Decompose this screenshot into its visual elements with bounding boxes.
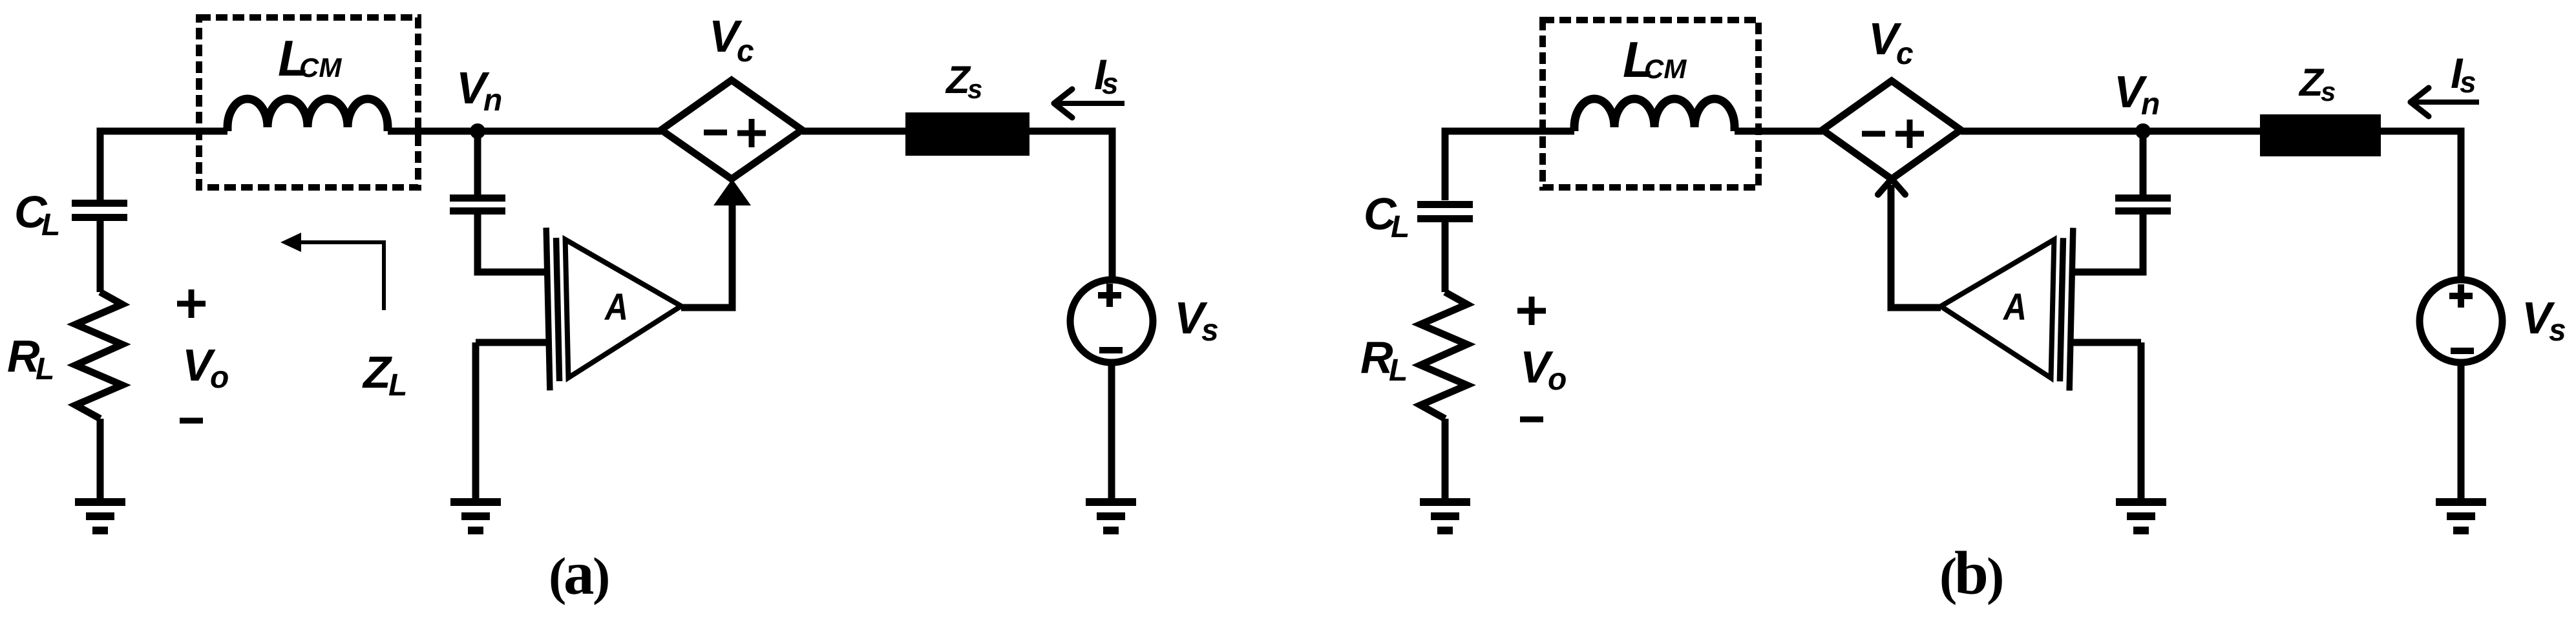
label Vs (a)	[1174, 293, 1219, 348]
minus inside Vs (a)	[1099, 347, 1123, 353]
label A (a)	[604, 286, 628, 328]
label plus of Vo (b)	[1517, 297, 1546, 325]
capacitor CL (b)	[1417, 205, 1473, 219]
capacitor C2 below Vn (b)	[2140, 131, 2147, 194]
capacitor CL (a)	[72, 204, 127, 218]
label CL (b)	[1364, 189, 1409, 244]
wire: (b) CL to RL	[1442, 222, 1449, 292]
wire: (a) RL to ground	[97, 419, 104, 499]
svg-text:b: b	[1954, 539, 1989, 607]
svg-text:s: s	[1201, 313, 1219, 348]
ground (b) under RL	[1420, 502, 1470, 530]
svg-text:n: n	[483, 83, 502, 118]
wire: (a) coil to diamond	[388, 128, 661, 135]
label plus of Vo (a)	[177, 289, 206, 318]
svg-text:a: a	[564, 539, 595, 607]
label Vc (a)	[709, 11, 754, 68]
svg-text:s: s	[2460, 65, 2476, 99]
label RL (a)	[7, 331, 54, 386]
wire: (a) capacitor to op-amp + input	[478, 215, 547, 272]
svg-text:A: A	[2002, 286, 2027, 328]
wire: (b) diamond to Zs	[1961, 128, 2260, 135]
open arrowhead into diamond (b)	[1878, 179, 1905, 194]
arrowhead into diamond (a)	[713, 179, 751, 205]
wire: (a) top-left corner down to CL	[100, 131, 227, 200]
label Vn (a)	[456, 63, 502, 118]
label Vo (a)	[182, 340, 229, 395]
label Vo (b)	[1520, 342, 1567, 397]
svg-text:L: L	[1389, 353, 1408, 388]
svg-text:s: s	[2321, 76, 2336, 107]
plus inside diamond (a)	[737, 119, 766, 147]
controlled source Vc diamond (a)	[661, 80, 802, 179]
source Vs (a)	[1070, 280, 1153, 362]
resistor RL (b)	[1420, 292, 1467, 419]
svg-text:CM: CM	[1644, 54, 1687, 84]
wire: (b) coil to diamond	[1735, 128, 1822, 135]
label L_CM (a)	[278, 30, 342, 87]
label RL (b)	[1360, 332, 1408, 388]
op-amp U1 A (a)	[546, 225, 683, 391]
ground (a) under RL	[75, 502, 125, 530]
source Vs (b)	[2420, 280, 2502, 362]
controlled source Vc diamond (b)	[1822, 81, 1961, 179]
inductor L_CM (b) coil	[1574, 99, 1735, 131]
svg-text:o: o	[210, 361, 229, 395]
current arrow Is (a)	[1056, 101, 1124, 106]
wire: (b) top-left corner down to CL	[1445, 131, 1574, 200]
wire: (a) CL to RL	[97, 221, 104, 292]
node Vn (b) junction dot	[2135, 123, 2151, 139]
wire: (b) op-amp - input to ground	[2073, 339, 2141, 346]
current arrow Is (b)	[2412, 100, 2479, 105]
label Zs (a)	[945, 58, 982, 104]
ground (b) under op-amp	[2116, 502, 2166, 530]
label minus of Vo (b)	[1520, 417, 1543, 423]
minus inside Vs (b)	[2451, 348, 2474, 354]
label CL (a)	[14, 187, 60, 242]
svg-text:s: s	[2549, 313, 2566, 348]
svg-text:): )	[593, 547, 610, 605]
svg-text:o: o	[1548, 362, 1567, 397]
label L_CM (b)	[1623, 31, 1687, 88]
capacitor C2 below Vn (a)	[474, 131, 481, 194]
impedance Zs (a)	[905, 112, 1029, 156]
plus inside Vs (a)	[1098, 284, 1121, 307]
caption (a)	[549, 539, 610, 607]
wire: (b) capacitor to op-amp + input	[2073, 215, 2143, 272]
label minus of Vo (a)	[180, 418, 203, 424]
wire: (b) RL to ground	[1442, 419, 1449, 499]
caption (b)	[1939, 539, 2004, 607]
svg-text:): )	[1987, 547, 2004, 605]
plus inside Vs (b)	[2449, 284, 2473, 308]
ground (a) under Vs	[1086, 502, 1136, 530]
label ZL (a)	[362, 347, 407, 403]
wire: (a) op-amp - input to ground	[476, 339, 547, 346]
wire: (b) op-amp output up to controlled source	[1891, 185, 1941, 308]
svg-text:L: L	[36, 352, 54, 386]
node Vn (a) junction dot	[470, 123, 485, 139]
ground (a) under op-amp	[450, 502, 501, 530]
svg-text:s: s	[1102, 67, 1119, 100]
svg-text:Z: Z	[362, 347, 392, 397]
svg-text:n: n	[2141, 87, 2160, 121]
wire: (b) Vs to ground	[2458, 362, 2465, 499]
wire: (b) Zs to Vs	[2381, 131, 2461, 280]
dashed box around L_CM (b)	[1543, 20, 1758, 187]
inductor L_CM (a) coil	[227, 99, 388, 131]
wire: (a) Zs to Vs	[1029, 131, 1112, 280]
minus inside diamond (a)	[704, 130, 727, 136]
svg-text:L: L	[1391, 210, 1409, 244]
svg-text:c: c	[737, 34, 754, 68]
impedance Zs (b)	[2260, 114, 2381, 156]
wire: (a) op-amp output up to controlled source	[681, 202, 732, 308]
wire: (a) diamond to Zs	[802, 128, 905, 135]
minus inside diamond (b)	[1862, 131, 1885, 137]
ground (b) under Vs	[2436, 502, 2486, 530]
svg-text:c: c	[1896, 37, 1914, 71]
dashed box around L_CM (a)	[199, 17, 418, 187]
svg-text:L: L	[388, 368, 407, 403]
label Is (b)	[2451, 49, 2476, 99]
label Zs (b)	[2298, 61, 2336, 107]
svg-text:CM: CM	[299, 52, 342, 83]
op-amp U1 A (b)	[1939, 225, 2073, 391]
label Is (a)	[1094, 50, 1119, 100]
svg-text:L: L	[41, 208, 60, 242]
svg-text:A: A	[604, 286, 628, 328]
label Vc (b)	[1868, 14, 1914, 71]
wire: (a) Vs to ground	[1108, 362, 1115, 499]
label Vs (b)	[2522, 293, 2566, 348]
svg-text:s: s	[967, 74, 982, 104]
label Vn (b)	[2114, 67, 2160, 121]
label A (b)	[2002, 286, 2027, 328]
arrow ZL (a)	[297, 242, 384, 310]
resistor RL (a)	[76, 292, 122, 419]
plus inside diamond (b)	[1895, 120, 1924, 148]
